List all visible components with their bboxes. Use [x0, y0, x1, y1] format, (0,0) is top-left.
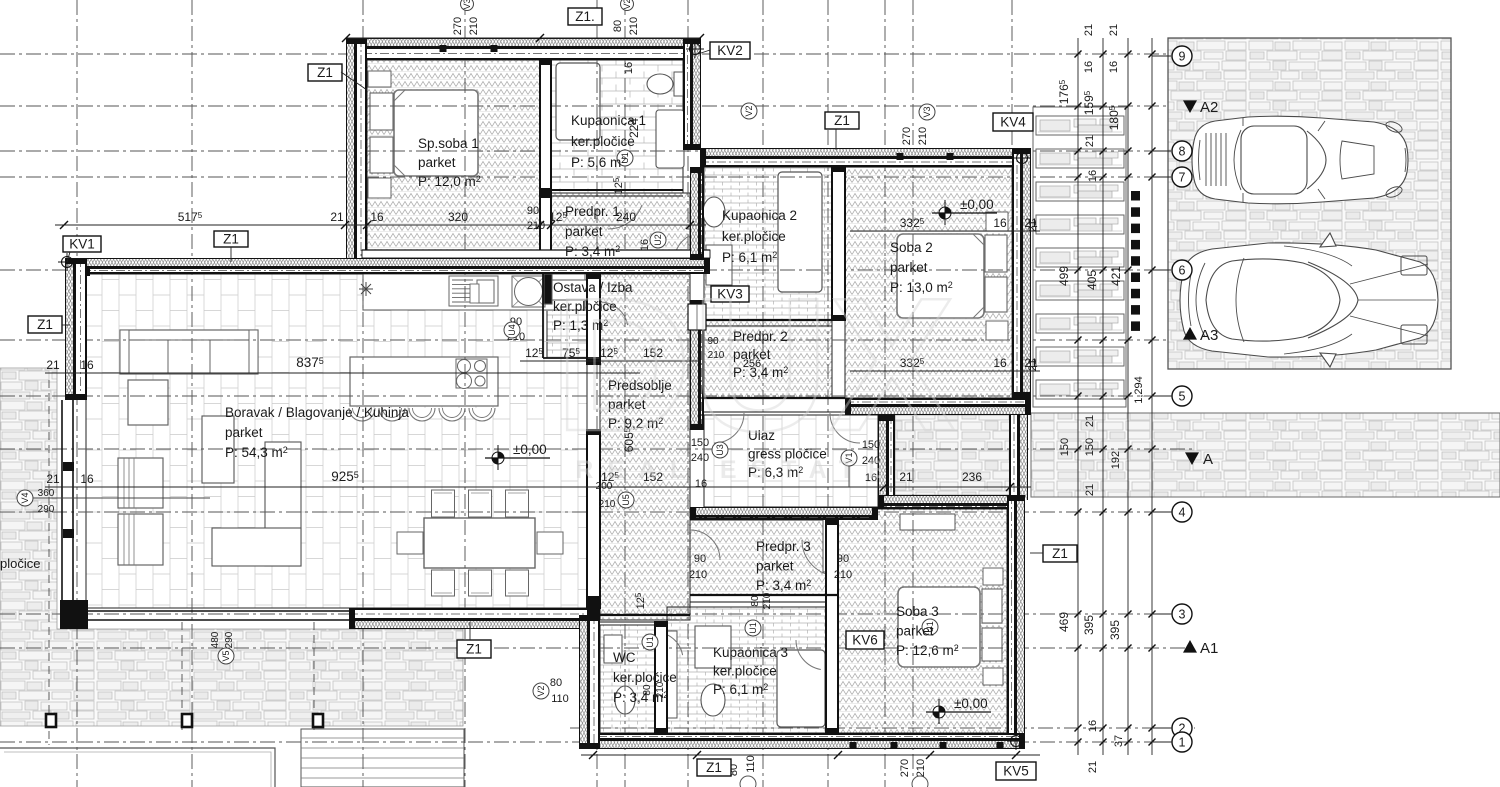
svg-text:1: 1: [1179, 735, 1186, 749]
svg-text:Z1: Z1: [834, 113, 850, 128]
svg-text:16: 16: [80, 472, 94, 486]
svg-text:V2: V2: [536, 685, 546, 696]
svg-text:21: 21: [899, 470, 913, 484]
svg-text:P: 3,4 m2: P: 3,4 m2: [613, 690, 668, 705]
svg-text:Boravak / Blagovanje / Kuhinja: Boravak / Blagovanje / Kuhinja: [225, 405, 409, 420]
svg-text:210: 210: [689, 569, 707, 581]
svg-text:ker.pločice: ker.pločice: [722, 229, 786, 244]
svg-text:16: 16: [993, 216, 1007, 230]
svg-text:Soba 3: Soba 3: [896, 604, 939, 619]
svg-text:Kupaonica 2: Kupaonica 2: [722, 208, 797, 223]
svg-text:A2: A2: [1200, 99, 1218, 116]
svg-text:±0,00: ±0,00: [513, 442, 547, 457]
svg-text:360: 360: [38, 488, 55, 499]
svg-text:192: 192: [1110, 451, 1122, 469]
svg-text:KV6: KV6: [852, 633, 878, 648]
svg-text:DUX: DUX: [554, 259, 955, 471]
svg-text:210: 210: [527, 220, 545, 232]
svg-text:395: 395: [1108, 620, 1122, 640]
svg-text:parket: parket: [225, 425, 263, 440]
svg-text:parket: parket: [418, 155, 456, 170]
svg-text:5: 5: [1179, 389, 1186, 403]
svg-text:7: 7: [1179, 170, 1186, 184]
svg-text:A3: A3: [1200, 327, 1218, 344]
svg-text:parket: parket: [756, 559, 794, 574]
svg-text:±0,00: ±0,00: [954, 696, 988, 711]
svg-text:A: A: [1203, 451, 1213, 468]
svg-text:16: 16: [1087, 170, 1099, 182]
svg-text:21: 21: [1027, 359, 1039, 371]
svg-text:8: 8: [1179, 144, 1186, 158]
svg-text:16: 16: [80, 358, 94, 372]
svg-text:Kupaonica 3: Kupaonica 3: [713, 645, 788, 660]
svg-text:21: 21: [1087, 761, 1099, 773]
svg-text:90: 90: [837, 553, 849, 565]
svg-text:P: 12,0 m2: P: 12,0 m2: [418, 174, 481, 189]
svg-text:16: 16: [1083, 61, 1095, 73]
svg-text:Predpr. 1: Predpr. 1: [565, 204, 620, 219]
svg-text:1,294: 1,294: [1133, 376, 1145, 404]
svg-text:21: 21: [1083, 24, 1095, 36]
svg-text:469: 469: [1057, 612, 1071, 632]
svg-text:Kupaonica 1: Kupaonica 1: [571, 113, 646, 128]
svg-text:Z1.: Z1.: [575, 9, 595, 24]
svg-text:P: 3,4 m2: P: 3,4 m2: [565, 244, 620, 259]
svg-text:16: 16: [639, 239, 651, 251]
svg-text:499: 499: [1057, 266, 1071, 286]
svg-text:U1: U1: [748, 622, 758, 634]
svg-text:21: 21: [1027, 220, 1039, 232]
svg-text:480: 480: [210, 631, 221, 648]
svg-text:80: 80: [750, 595, 761, 607]
svg-text:210: 210: [762, 592, 773, 609]
svg-text:KV1: KV1: [69, 237, 95, 252]
svg-text:Z1: Z1: [317, 65, 333, 80]
svg-text:90: 90: [694, 553, 706, 565]
svg-text:16: 16: [623, 62, 635, 74]
svg-text:KV5: KV5: [1003, 764, 1029, 779]
svg-text:KV2: KV2: [717, 43, 743, 58]
svg-text:ker.pločice: ker.pločice: [571, 134, 635, 149]
svg-text:270: 270: [901, 127, 913, 145]
svg-text:21: 21: [46, 472, 60, 486]
svg-text:P: 54,3 m2: P: 54,3 m2: [225, 445, 288, 460]
svg-text:V5: V5: [221, 650, 231, 661]
svg-text:21: 21: [1108, 24, 1120, 36]
svg-text:210: 210: [834, 569, 852, 581]
svg-text:110: 110: [745, 755, 757, 773]
svg-text:210: 210: [917, 127, 929, 145]
svg-text:WC: WC: [613, 650, 636, 665]
svg-text:21: 21: [46, 358, 60, 372]
svg-text:150: 150: [1084, 438, 1096, 456]
svg-text:±0,00: ±0,00: [960, 197, 994, 212]
svg-text:80: 80: [612, 20, 624, 32]
svg-text:3: 3: [1179, 607, 1186, 621]
svg-text:270: 270: [899, 759, 911, 777]
svg-text:Z1: Z1: [706, 760, 722, 775]
svg-text:290: 290: [224, 631, 235, 648]
svg-text:236: 236: [962, 470, 982, 484]
svg-text:21: 21: [330, 210, 344, 224]
svg-text:Soba 2: Soba 2: [890, 240, 933, 255]
svg-text:21: 21: [1084, 415, 1096, 427]
svg-text:V2: V2: [622, 0, 632, 10]
svg-text:21: 21: [1084, 484, 1096, 496]
svg-text:P: 6,1 m2: P: 6,1 m2: [713, 682, 768, 697]
svg-text:110: 110: [551, 693, 569, 705]
svg-text:150: 150: [1059, 438, 1071, 456]
svg-text:P: 5,6 m2: P: 5,6 m2: [571, 155, 626, 170]
svg-text:Z1: Z1: [1052, 546, 1068, 561]
svg-text:Z1: Z1: [466, 642, 482, 657]
svg-text:9: 9: [1179, 49, 1186, 63]
svg-text:U5: U5: [621, 494, 631, 506]
svg-text:ker.pločice: ker.pločice: [713, 664, 777, 679]
svg-text:395: 395: [1082, 615, 1096, 635]
svg-text:Z1: Z1: [37, 317, 53, 332]
svg-text:210: 210: [599, 499, 616, 510]
svg-text:16: 16: [1087, 720, 1099, 732]
svg-text:90: 90: [527, 205, 539, 217]
svg-text:21: 21: [1084, 135, 1096, 147]
svg-text:Predpr. 3: Predpr. 3: [756, 539, 811, 554]
svg-text:Sp.soba 1: Sp.soba 1: [418, 136, 479, 151]
svg-text:320: 320: [448, 210, 468, 224]
svg-text:16: 16: [370, 210, 384, 224]
svg-text:16: 16: [1108, 61, 1120, 73]
svg-text:V3: V3: [462, 0, 472, 10]
svg-text:Z1: Z1: [223, 232, 239, 247]
svg-text:U1: U1: [645, 636, 655, 648]
svg-text:405: 405: [1085, 270, 1099, 290]
svg-text:421: 421: [1109, 266, 1123, 286]
svg-text:U2: U2: [653, 234, 663, 246]
svg-text:ker.pločice: ker.pločice: [613, 670, 677, 685]
svg-text:80: 80: [550, 677, 562, 689]
svg-text:A1: A1: [1200, 640, 1218, 657]
svg-text:37: 37: [1113, 735, 1125, 747]
svg-text:pločice: pločice: [0, 556, 40, 571]
svg-text:290: 290: [38, 504, 55, 515]
svg-text:U4: U4: [507, 324, 517, 336]
svg-text:16: 16: [993, 356, 1007, 370]
svg-text:4: 4: [1179, 505, 1186, 519]
svg-text:REAL ESTATE: REAL ESTATE: [575, 456, 898, 484]
svg-text:270: 270: [452, 17, 464, 35]
svg-text:V2: V2: [744, 105, 754, 116]
svg-text:P: 12,6 m2: P: 12,6 m2: [896, 643, 959, 658]
svg-text:V4: V4: [20, 492, 30, 503]
svg-text:210: 210: [468, 17, 480, 35]
svg-text:V3: V3: [922, 106, 932, 117]
svg-text:6: 6: [1179, 263, 1186, 277]
svg-text:210: 210: [915, 759, 927, 777]
svg-text:parket: parket: [896, 624, 934, 639]
svg-text:P: 3,4 m2: P: 3,4 m2: [756, 578, 811, 593]
svg-text:210: 210: [628, 17, 640, 35]
svg-text:parket: parket: [565, 224, 603, 239]
svg-text:KV4: KV4: [1000, 115, 1026, 130]
